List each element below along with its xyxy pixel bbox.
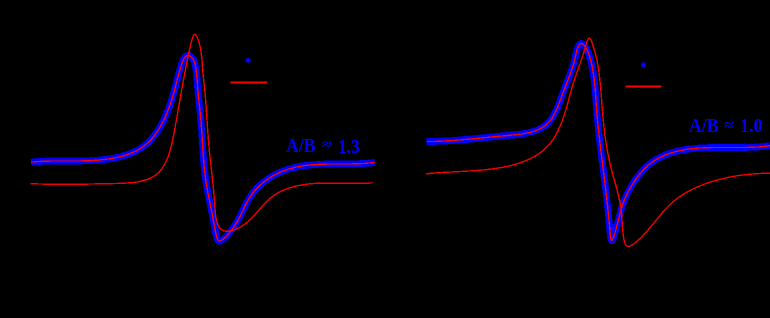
left legend marker dot (blue) — [246, 58, 251, 63]
left legend line sample (red) — [231, 82, 267, 84]
label A/B — [286, 135, 315, 158]
left panel experimental curve (thick blue) — [31, 55, 375, 241]
right legend marker dot (blue) — [641, 62, 646, 67]
right panel fit curve (thin red overlaying blue) — [427, 44, 770, 241]
right panel narrow red curve — [426, 38, 770, 246]
left panel narrow red curve — [31, 34, 373, 231]
label approx symbol (right) — [724, 117, 734, 134]
right legend line sample (red) — [626, 86, 662, 88]
label 1.0 — [740, 115, 763, 138]
left panel fit curve (thin red overlaying blue) — [31, 55, 375, 241]
right panel experimental curve (thick blue) — [427, 44, 770, 241]
label A/B (right) — [689, 115, 718, 138]
label 1.3 — [338, 136, 360, 159]
label approx symbol — [322, 136, 332, 153]
